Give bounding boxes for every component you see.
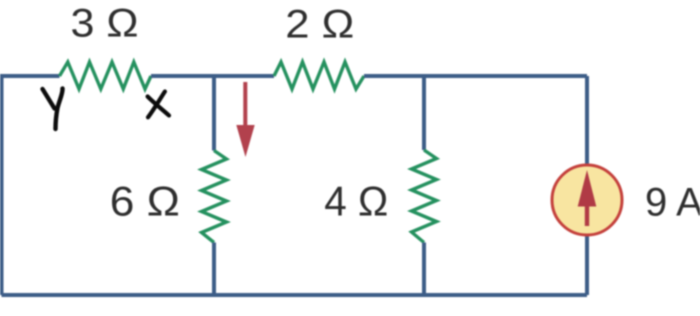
resistor R1 3-ohm (horizontal zigzag) <box>60 62 152 89</box>
wire: right side bottom (current source to bottom rail) <box>585 235 589 295</box>
wire: right side top (top rail to current source) <box>585 76 589 165</box>
current source arrow (red, pointing up) <box>578 170 597 226</box>
resistor R3 6-ohm (vertical zigzag) <box>202 151 227 243</box>
handwritten mark y <box>43 89 63 130</box>
wire: top rail left segment <box>2 76 60 295</box>
wire: branch2 top (from top rail to 4-ohm) <box>422 76 426 150</box>
wire: top rail right segment <box>364 74 587 78</box>
svg-text:6 Ω: 6 Ω <box>110 178 180 225</box>
wire: top rail middle segment (node between 3-ohm and 2-ohm) <box>151 74 274 78</box>
wire: bottom rail <box>2 293 588 297</box>
wire: branch2 bottom (from 4-ohm to bottom rail) <box>422 243 426 296</box>
current direction arrow (red, pointing down) <box>236 82 254 157</box>
resistor R2 2-ohm (horizontal zigzag) <box>274 62 364 89</box>
svg-text:9 A: 9 A <box>645 181 700 225</box>
resistor R4 4-ohm (vertical zigzag) <box>412 150 437 243</box>
wire: branch1 bottom (from 6-ohm to bottom rail) <box>212 243 216 296</box>
current source I1 (circle) <box>552 165 622 235</box>
handwritten mark x <box>148 92 169 118</box>
svg-text:3 Ω: 3 Ω <box>71 2 139 46</box>
svg-text:2 Ω: 2 Ω <box>285 3 354 47</box>
svg-text:4 Ω: 4 Ω <box>324 177 388 224</box>
wire: branch1 top (from top rail to 6-ohm) <box>212 76 216 151</box>
